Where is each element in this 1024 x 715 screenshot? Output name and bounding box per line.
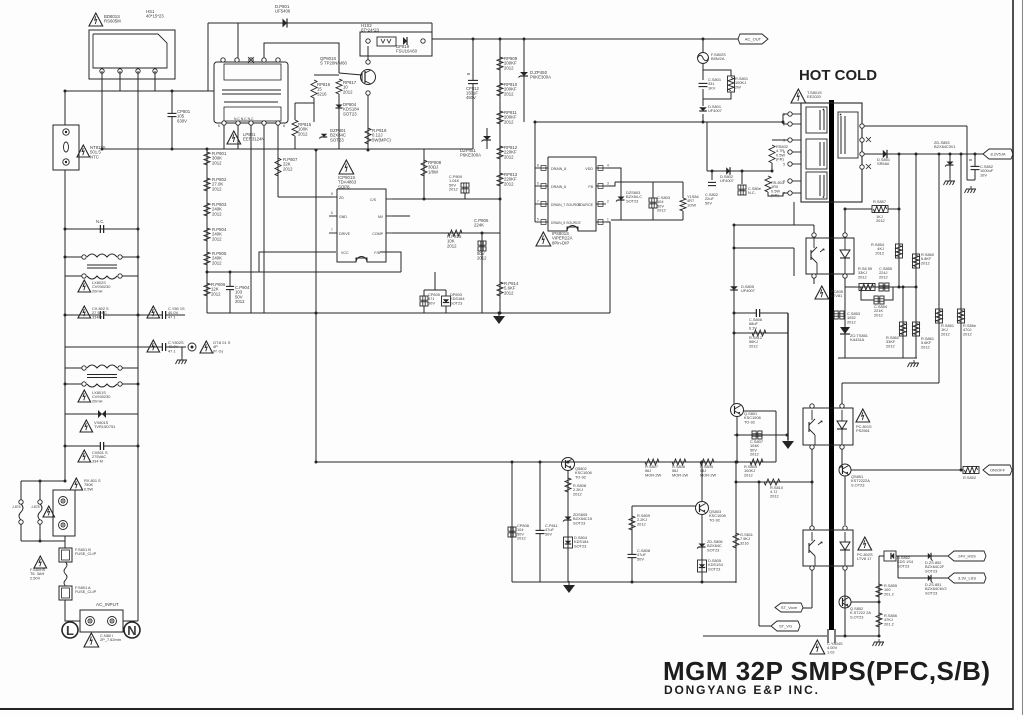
wire jumper J876 top	[20, 481, 22, 500]
label DS802 UF4007	[720, 174, 734, 183]
label CS853 1052	[847, 311, 860, 324]
wire RS801 loop2	[703, 92, 731, 99]
label GT801S	[213, 340, 231, 353]
svg-text:DRAIN_8: DRAIN_8	[551, 167, 566, 171]
wire RP815 bottom	[294, 136, 296, 149]
warning triangle ICP801S	[339, 160, 354, 174]
svg-text:7: 7	[331, 228, 333, 232]
label FS801S T6.3AH	[30, 567, 46, 580]
VIPER right pin 2	[596, 200, 609, 207]
wire RP817 chain down	[338, 94, 340, 149]
label PC805 LTV81	[831, 289, 843, 298]
label DS805 KDS184	[708, 558, 724, 571]
diode DS805 boxed	[698, 560, 707, 572]
warning triangle CY8025	[147, 340, 160, 352]
LF801 bottom pin b	[236, 121, 240, 125]
VIPER left pin 0	[535, 164, 548, 171]
junction	[539, 461, 542, 464]
ground arrow aux	[782, 437, 794, 449]
PC805 pin TR	[843, 233, 847, 237]
PC801S led	[837, 410, 847, 445]
resistor RS810	[764, 479, 780, 485]
LF801 pin 6	[222, 121, 226, 125]
chassis ground ZDS853	[944, 178, 956, 185]
wire PC802S BR drop	[844, 570, 846, 636]
wire PC801S BR drop	[839, 449, 842, 467]
warning triangle BD801S	[89, 13, 103, 26]
wire boost output rail	[432, 38, 703, 40]
label CP805 471	[428, 292, 440, 305]
label DS804 KDS184	[574, 535, 589, 548]
wire PC805 feed top	[734, 224, 814, 226]
wire RP816 top	[314, 74, 339, 76]
transistor QS802	[562, 458, 575, 471]
label RS810 4.7J	[770, 485, 784, 498]
wire CP812 branch	[472, 39, 474, 149]
label CP801 105 630V	[177, 109, 191, 123]
VIPER label DRAIN_8	[551, 167, 566, 171]
wire fuse column	[64, 536, 66, 548]
connector 3.3V	[948, 573, 986, 583]
label RP810	[504, 82, 518, 96]
junction	[567, 461, 570, 464]
warning triangle FS801S	[34, 556, 47, 568]
bridge rectifier BD801S outer box	[89, 30, 175, 79]
label DP801 UF5406	[275, 4, 291, 14]
svg-text:ON/OFF: ON/OFF	[990, 468, 1006, 473]
label DS805p UF4007	[741, 284, 755, 293]
junction	[733, 247, 736, 250]
label DZS803	[626, 190, 642, 203]
warning triangle fuse area	[43, 506, 55, 517]
capacitor CY8015	[162, 311, 165, 319]
wire RP chain vertical	[206, 149, 208, 313]
resistor R.S805	[700, 459, 714, 465]
AC input box	[80, 610, 123, 632]
label RP812	[504, 145, 518, 159]
T801S right pin	[860, 152, 864, 156]
wire to AC L	[64, 600, 66, 614]
resistor RS855	[876, 584, 882, 597]
wire RS811 branch	[735, 462, 737, 583]
junction	[137, 445, 140, 448]
junction	[481, 232, 484, 235]
svg-text:ST_VG: ST_VG	[779, 624, 792, 629]
svg-text:D.S802UF4007: D.S802UF4007	[720, 174, 734, 183]
resistor chain RP809-813 wire	[499, 39, 501, 313]
LF801 inner top box	[224, 64, 281, 80]
wire QS801 emitter	[736, 416, 738, 462]
svg-text:8: 8	[537, 164, 539, 168]
label RS862 33KF	[886, 335, 899, 348]
connector ST_Vout	[775, 603, 803, 612]
label PC802S LTV817	[857, 552, 873, 561]
transformer T801S box	[801, 103, 862, 202]
wire LF801 pin8 drop	[277, 125, 279, 197]
T801S right pin x2	[866, 164, 871, 169]
wire jumper J878 top	[39, 481, 41, 500]
wire DS852 line	[879, 555, 884, 557]
wire 3.3V line	[898, 577, 948, 579]
wire jumper bottom wire	[21, 540, 65, 542]
resistor RS804	[750, 459, 763, 465]
LF801 pin 4	[235, 58, 239, 62]
label N.C.	[96, 219, 104, 224]
label RS859 33KJ	[858, 266, 872, 279]
junction	[949, 153, 952, 156]
label RS802 4.7R	[776, 144, 788, 162]
svg-text:BD801SRS605M: BD801SRS605M	[104, 14, 121, 24]
wire NTC bottom wire	[64, 170, 66, 229]
wire PC805 TR feed	[844, 209, 846, 233]
capacitor CP801	[168, 113, 177, 116]
resistor RP812	[497, 146, 503, 159]
zener DZS803	[616, 197, 625, 202]
wire PC801S BL drop	[811, 449, 813, 527]
capacitor CS802 electrolytic	[708, 182, 716, 185]
junction	[974, 153, 977, 156]
T801S left pin 4	[783, 150, 801, 155]
wire bridge t4 stub	[154, 71, 156, 91]
VIPER label DRAIN_5	[551, 221, 582, 225]
label ZDS853	[934, 140, 956, 149]
wire CP801 branch	[171, 91, 173, 149]
svg-text:AC_INPUT: AC_INPUT	[96, 602, 119, 607]
choke LX802S	[82, 254, 122, 279]
label HOT COLD	[799, 67, 877, 84]
svg-text:D.S801UF4007: D.S801UF4007	[708, 104, 722, 113]
resistor RS861 boxed	[913, 322, 920, 336]
wire CS807 line	[734, 434, 787, 436]
LF801 pin 1	[276, 58, 280, 62]
svg-text:T.S801SEE2020: T.S801SEE2020	[807, 90, 822, 99]
diode DS801	[699, 107, 707, 111]
resistor RP811	[497, 111, 503, 124]
wire sec B+ rail	[864, 153, 983, 155]
transistor QS801	[731, 404, 744, 417]
junction	[811, 481, 814, 484]
svg-text:PC805LTV81: PC805LTV81	[831, 289, 843, 298]
warning triangle VX801S	[80, 420, 93, 432]
junction	[733, 224, 736, 227]
capacitor CS807	[752, 431, 762, 439]
label QP801S	[320, 56, 348, 66]
zener ZDS806	[697, 544, 706, 549]
junction	[64, 256, 67, 259]
wire divider column x899	[898, 154, 900, 287]
junction	[64, 314, 67, 317]
resistor RS860 boxed	[913, 254, 920, 268]
opto PC802S box	[803, 530, 853, 566]
svg-text:DRIVE: DRIVE	[339, 232, 351, 236]
wire NTC top wire	[64, 91, 66, 125]
svg-text:2: 2	[607, 200, 609, 204]
PC805 led	[840, 238, 850, 274]
VIPER label DRAIN_6	[551, 185, 566, 189]
label QS803 KSC1008	[709, 509, 726, 522]
junction	[499, 198, 502, 201]
capacitor CP805	[420, 296, 428, 306]
label CP904 103	[235, 285, 250, 304]
label RS852	[963, 475, 976, 480]
wire DP803 stub	[445, 290, 447, 296]
wire CS852 branch	[974, 154, 976, 180]
svg-text:4: 4	[607, 164, 609, 168]
label ZDTS851 KA431A	[850, 333, 868, 342]
junction	[367, 149, 370, 152]
IC IPS801S box	[548, 157, 596, 231]
T801S right pin	[860, 165, 864, 169]
svg-text:J-878: J-878	[31, 505, 40, 509]
junction	[733, 332, 736, 335]
wire RS802 join	[768, 170, 772, 172]
wire DZP451 branch	[486, 128, 488, 149]
junction	[64, 383, 67, 386]
svg-text:6: 6	[537, 182, 539, 186]
resistor RS853 boxed	[958, 309, 965, 323]
junction	[631, 581, 634, 584]
label FS802S B5N/2A	[711, 52, 726, 61]
label RS860 6.8KF	[921, 252, 935, 265]
wire choke2 bot	[65, 383, 84, 385]
T801S left pin 2	[783, 122, 801, 127]
junction	[878, 601, 881, 604]
wire CS854 loop2	[884, 287, 893, 300]
wire FB drop to opto	[841, 383, 843, 404]
label RS804 100KJ	[744, 464, 758, 477]
PC805 pin TL	[812, 233, 816, 237]
wire CX802S wire	[65, 314, 185, 316]
LF801 pin 5	[221, 58, 225, 62]
label DZS852	[925, 560, 945, 573]
wire RS809 branch	[631, 506, 633, 582]
junction	[741, 170, 744, 173]
label FS801A	[75, 585, 97, 594]
diode DS802	[726, 167, 730, 175]
wire standby rail	[316, 461, 776, 463]
junction	[960, 469, 963, 472]
svg-text:8: 8	[331, 192, 333, 196]
wire QS802 emitter chain	[567, 470, 569, 582]
PC801S pin TR	[840, 404, 844, 408]
wire QS803 base wire	[632, 505, 696, 507]
junction	[206, 148, 209, 151]
junction	[64, 445, 67, 448]
VIPER label DRAIN_7	[551, 203, 582, 207]
wire standby HV feed	[535, 121, 783, 123]
wire VCC stub	[259, 252, 336, 272]
resistor RP817	[336, 79, 342, 94]
T801S left pin 5	[783, 162, 801, 167]
capacitor CS852 electrolytic	[969, 160, 980, 170]
junction	[702, 121, 705, 124]
isolation barrier bar	[829, 100, 834, 630]
wire CP805 bottom	[423, 306, 425, 313]
wire choke1 bot	[65, 275, 84, 277]
subtitle DONGYANG E&P INC.	[664, 683, 818, 697]
resistor R.P803	[204, 203, 210, 216]
label CP812 150uF 450V	[466, 86, 479, 100]
label RP807 22K	[283, 157, 298, 171]
T801S winding box 2	[806, 139, 827, 169]
chassis ground cold	[873, 639, 885, 646]
capacitor CP806	[478, 241, 486, 251]
resistor Y1S84	[680, 198, 686, 211]
label VX801S	[94, 420, 115, 429]
VIPER left pin 3	[535, 218, 548, 225]
wire choke2 top	[65, 367, 84, 369]
wire LF801 pin6 stub	[223, 125, 225, 149]
label RS803 1R0	[771, 180, 784, 198]
junction	[758, 481, 761, 484]
label RS809 2.2KJ	[637, 513, 650, 526]
warning triangle TS801S	[791, 89, 806, 103]
LF801 bottom pin d	[262, 121, 266, 125]
wire RS862 branch	[902, 287, 904, 358]
wire top rail right drop	[431, 23, 433, 39]
svg-text:5: 5	[783, 163, 785, 167]
label RP815 100K	[298, 122, 312, 136]
diode DS804 boxed	[564, 537, 573, 548]
LF801 winding bar	[224, 101, 278, 103]
wire pin1 drop	[966, 126, 968, 180]
wire DZS803 branch	[620, 182, 622, 220]
wire DS801 bottom	[702, 114, 704, 122]
PC801S pin TL	[810, 404, 814, 408]
wire aux cross top	[734, 312, 788, 314]
wire fuse bottom	[702, 64, 704, 80]
label DS852 KDS184	[897, 555, 914, 568]
wire RS860 chain	[915, 154, 917, 358]
label CS808 47uF	[637, 548, 650, 561]
wire PC805 BL stub	[813, 278, 815, 284]
wire DP803 bottom	[445, 306, 447, 313]
label CS852 1000uF	[980, 164, 994, 177]
PC802S pin TL	[810, 526, 814, 530]
label QS852 KST2222A	[850, 606, 871, 619]
resistor RS854 boxed	[896, 244, 903, 258]
junction	[137, 383, 140, 386]
label CX802S	[92, 306, 109, 319]
wire ONOFF wire	[851, 469, 961, 471]
VIPER label SOURCE2	[578, 203, 594, 207]
junction	[64, 228, 67, 231]
junction	[137, 256, 140, 259]
resistor RS802	[769, 145, 775, 163]
wire VIPER vdd rail	[606, 168, 621, 182]
wire fuse top	[702, 39, 704, 53]
resistor RP815 gate	[292, 120, 298, 136]
label RP806 12K	[211, 282, 226, 296]
warning triangle LX802S	[78, 280, 91, 292]
wire DZP450 branch	[523, 39, 525, 122]
PC805 pin BL	[812, 274, 816, 278]
VIPER left pin 2	[535, 200, 548, 207]
label CP806 224K	[474, 218, 489, 261]
wire top rail	[208, 22, 432, 24]
zener DZP451	[482, 136, 492, 142]
wire QS803 collector up	[701, 462, 703, 502]
svg-text:D.S851SR5A0: D.S851SR5A0	[877, 157, 890, 166]
IC pin VCC	[341, 251, 349, 255]
wire ZD pin feed	[278, 196, 333, 198]
junction	[702, 38, 705, 41]
wire signal gnd rail	[207, 312, 610, 314]
resistor R.S807	[645, 459, 659, 465]
PC805 transistor	[811, 238, 824, 274]
wire LF801 pin d drop	[263, 125, 265, 313]
capacitor CP811 electrolytic	[536, 530, 545, 533]
T801S winding box sec	[838, 112, 858, 158]
label FS801B	[75, 547, 97, 556]
label CS806 68uF	[749, 317, 762, 330]
PC802S led	[840, 532, 850, 566]
capacitor CS801	[699, 83, 708, 86]
wire L stub	[65, 614, 80, 621]
wire gnd join	[967, 179, 975, 181]
label RS857	[873, 199, 886, 223]
terminal box	[53, 490, 75, 536]
wire VIPER aux rail	[606, 182, 615, 186]
bridge terminal 4	[153, 69, 157, 73]
resistor RP809	[497, 57, 503, 70]
junction	[736, 461, 739, 464]
warning triangle CY8015	[147, 306, 160, 318]
junction	[315, 461, 318, 464]
label RS801 100KJ 2W	[735, 76, 748, 89]
transformer LF801 body	[214, 62, 288, 123]
label RP816 15 3216	[317, 82, 331, 96]
wire CP805 top loop	[424, 289, 446, 291]
wire CP805 stub	[423, 290, 425, 296]
wire bridge + rail	[65, 90, 214, 92]
IC pin DRIVE	[329, 228, 351, 236]
T801S right pin	[860, 138, 864, 142]
label DZP450 P6KE300A	[530, 70, 551, 80]
wire EMI left rail	[64, 229, 66, 481]
IC pin NI	[378, 215, 394, 219]
wire mid rail	[207, 271, 401, 273]
resistor RS811	[733, 533, 739, 548]
wire aux feed2	[734, 247, 794, 249]
PC802S pin BL	[810, 566, 814, 570]
NTC element	[64, 142, 69, 152]
wire COMP line	[392, 232, 500, 234]
wire QS851 emitter drop	[844, 476, 846, 525]
label RS856 47KJ	[884, 613, 897, 626]
heatsink box HS2	[360, 32, 432, 56]
label RP813	[504, 172, 518, 186]
wire RS810 line	[736, 481, 812, 483]
PC805 pin BR	[843, 274, 847, 278]
wire 24V line	[896, 555, 948, 557]
PC801S pin BR	[840, 445, 844, 449]
diode DS851	[883, 150, 887, 158]
wire aux rail2	[615, 181, 683, 183]
wire choke2 top2	[120, 367, 138, 369]
varistor VX801S	[98, 410, 106, 418]
wire RS802 bottom	[771, 163, 773, 171]
junction	[498, 312, 501, 315]
wire bridge t1 drop	[101, 71, 103, 149]
warning triangle CX801S	[78, 450, 91, 462]
resistor RS852 boxed	[963, 467, 979, 474]
wire primary pins 1-2 stub	[782, 114, 784, 124]
wire LF801 pin c drop	[250, 125, 252, 313]
bridge rectifier BD801S body	[93, 34, 167, 68]
transistor QS851	[839, 464, 851, 476]
zener ZDS805	[563, 517, 572, 522]
